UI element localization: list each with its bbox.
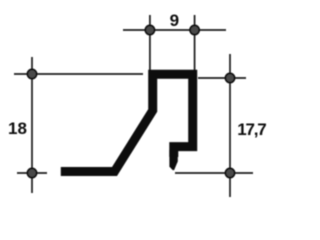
node 9 left	[145, 25, 154, 34]
extension line vertical top-right of 9	[194, 15, 196, 72]
extension line horizontal bottom-left	[17, 172, 47, 174]
dimension line vertical left (18)	[31, 57, 33, 193]
profile hook tip	[169, 150, 177, 170]
node bottom-left	[27, 168, 36, 177]
node 9 right	[190, 25, 199, 34]
node top-left	[27, 69, 36, 78]
dimension line horizontal top (9)	[123, 29, 226, 31]
extension line horizontal top-right	[198, 77, 246, 79]
extension line vertical top-left of 9	[149, 15, 151, 72]
svg-text:9: 9	[170, 11, 179, 30]
extension line horizontal top-left	[14, 73, 143, 75]
extension line horizontal bottom-right	[175, 172, 253, 174]
svg-text:18: 18	[8, 119, 27, 138]
svg-text:17,7: 17,7	[237, 120, 266, 139]
dimension line vertical right (17,7)	[229, 54, 231, 197]
node top-right	[225, 73, 234, 82]
node bottom-right	[225, 168, 234, 177]
profile cross-section outline	[61, 74, 193, 171]
